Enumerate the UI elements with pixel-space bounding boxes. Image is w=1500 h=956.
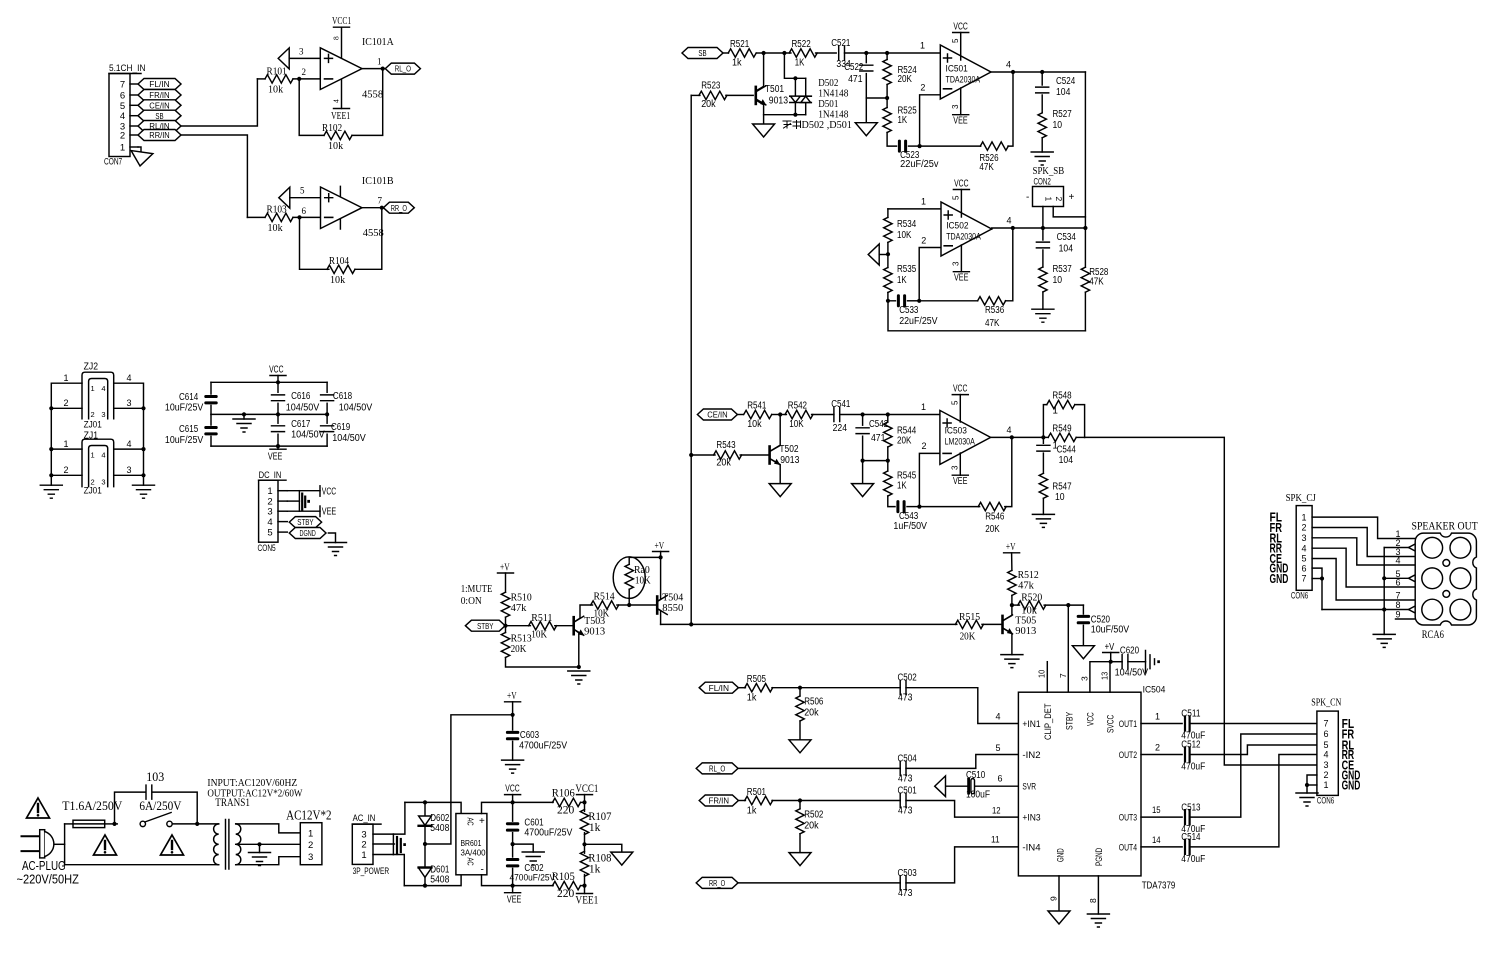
svg-text:10k: 10k bbox=[268, 223, 284, 234]
wire R534 to IC502 +input pin1 bbox=[888, 208, 941, 210]
resistor R103 bbox=[247, 216, 265, 218]
svg-text:3: 3 bbox=[101, 478, 105, 487]
svg-text:VCC: VCC bbox=[954, 179, 968, 190]
svg-text:ZJ01: ZJ01 bbox=[84, 485, 102, 496]
transistor T502 9013 bbox=[691, 454, 715, 456]
analog-ground triangle at R534/R535 bbox=[868, 244, 879, 265]
ground below C542 bbox=[852, 484, 874, 497]
svg-text:CE/IN: CE/IN bbox=[149, 100, 169, 110]
net flag RR_O bbox=[383, 202, 414, 213]
svg-text:7: 7 bbox=[1396, 591, 1401, 601]
svg-text:C619: C619 bbox=[331, 422, 351, 433]
svg-text:OUT4: OUT4 bbox=[1119, 842, 1137, 853]
IC101B power stubs bbox=[339, 186, 341, 229]
svg-text:3: 3 bbox=[127, 465, 132, 475]
svg-text:3: 3 bbox=[101, 410, 105, 419]
svg-text:OUT2: OUT2 bbox=[1119, 750, 1137, 761]
svg-text:C513: C513 bbox=[1181, 802, 1201, 813]
svg-text:8: 8 bbox=[332, 36, 341, 40]
svg-text:4: 4 bbox=[127, 373, 132, 383]
resistor R546 feedback bbox=[919, 506, 979, 508]
capacitor C541 bbox=[834, 408, 840, 422]
svg-text:4558: 4558 bbox=[362, 89, 384, 101]
svg-text:5: 5 bbox=[951, 400, 960, 405]
svg-text:VCC1: VCC1 bbox=[575, 781, 598, 795]
capacitor C523 electrolytic bbox=[898, 140, 907, 153]
ground below R502 bbox=[789, 853, 811, 866]
svg-text:SB: SB bbox=[698, 48, 706, 58]
fuse T1.6A/250V bbox=[65, 823, 73, 825]
capacitor C614 electrolytic bbox=[210, 382, 212, 394]
resistor R544 bbox=[887, 415, 889, 423]
svg-text:R541: R541 bbox=[747, 401, 767, 412]
svg-text:C501: C501 bbox=[898, 786, 918, 797]
svg-text:AC_IN: AC_IN bbox=[353, 813, 376, 824]
T503 collector to R514 bbox=[574, 605, 593, 622]
svg-text:GND: GND bbox=[1342, 779, 1361, 793]
svg-text:VEE: VEE bbox=[954, 273, 969, 284]
svg-text:2: 2 bbox=[361, 840, 366, 851]
svg-text:+V: +V bbox=[655, 541, 665, 552]
svg-text:R535: R535 bbox=[897, 264, 917, 275]
resistor R548 parallel loop bbox=[1043, 405, 1046, 438]
svg-text:47k: 47k bbox=[511, 602, 527, 614]
svg-text:TDA2030A: TDA2030A bbox=[946, 232, 981, 242]
svg-text:R104: R104 bbox=[329, 256, 350, 267]
svg-text:1k: 1k bbox=[747, 806, 758, 817]
transistor T505 9013 bbox=[1003, 615, 1013, 634]
resistor R513 bbox=[505, 626, 507, 633]
svg-text:5: 5 bbox=[951, 38, 960, 43]
svg-text:3: 3 bbox=[1301, 533, 1306, 543]
svg-text:22uF/25v: 22uF/25v bbox=[900, 159, 938, 170]
svg-text:C616: C616 bbox=[291, 391, 311, 402]
svg-text:20k: 20k bbox=[716, 458, 731, 469]
resistor R541 bbox=[737, 414, 743, 416]
svg-text:1: 1 bbox=[91, 451, 95, 460]
svg-text:STBY: STBY bbox=[1064, 711, 1075, 730]
SPK_CJ pin2 wire to RCA pin3 bbox=[1312, 528, 1415, 557]
svg-text:R546: R546 bbox=[985, 512, 1005, 523]
capacitor C512 output 2 bbox=[1141, 754, 1182, 756]
IC504 CLIP_DET stub pin10 bbox=[1046, 662, 1048, 693]
svg-text:5: 5 bbox=[1301, 554, 1306, 564]
svg-text:14: 14 bbox=[1152, 835, 1161, 845]
capacitor C601 electrolytic bbox=[512, 802, 514, 821]
net flag RR_O bbox=[696, 877, 738, 888]
svg-text:SPK_SB: SPK_SB bbox=[1033, 165, 1065, 177]
svg-text:C514: C514 bbox=[1181, 832, 1201, 843]
svg-text:2: 2 bbox=[64, 465, 69, 475]
svg-text:103: 103 bbox=[146, 770, 164, 784]
svg-text:SVCC: SVCC bbox=[1106, 715, 1117, 733]
svg-text:3: 3 bbox=[299, 47, 304, 57]
resistor R523 bbox=[691, 94, 700, 96]
svg-text:20K: 20K bbox=[511, 643, 527, 655]
svg-text:C533: C533 bbox=[899, 305, 919, 316]
svg-text:5: 5 bbox=[1323, 740, 1328, 750]
svg-text:VEE1: VEE1 bbox=[331, 111, 350, 122]
svg-text:R105: R105 bbox=[552, 869, 575, 883]
net flag FR/IN bbox=[138, 90, 181, 101]
svg-text:C511: C511 bbox=[1181, 709, 1201, 720]
svg-text:+IN1: +IN1 bbox=[1022, 719, 1040, 730]
svg-text:2: 2 bbox=[1301, 523, 1306, 533]
svg-text:3: 3 bbox=[267, 507, 272, 518]
svg-text:C614: C614 bbox=[179, 392, 199, 403]
wire diode midpoint to +V bbox=[425, 715, 513, 844]
IC504 SVCC pin13 wire bbox=[1109, 662, 1111, 693]
resistor R108 bbox=[580, 851, 588, 876]
svg-text:10uF/50V: 10uF/50V bbox=[1091, 625, 1130, 636]
svg-text:10uF/25V: 10uF/25V bbox=[165, 403, 204, 414]
svg-text:5: 5 bbox=[300, 186, 305, 196]
net flag STBY bbox=[465, 620, 505, 631]
svg-text:6: 6 bbox=[1323, 729, 1328, 739]
svg-text:10k: 10k bbox=[330, 275, 346, 286]
AC_IN pin1 wire to bottom rail bbox=[393, 855, 404, 886]
svg-text:0:ON: 0:ON bbox=[461, 595, 482, 607]
svg-text:20K: 20K bbox=[898, 74, 913, 85]
svg-text:4700uF/25V: 4700uF/25V bbox=[524, 828, 572, 839]
svg-text:VCC: VCC bbox=[505, 784, 519, 795]
svg-text:R548: R548 bbox=[1052, 391, 1072, 402]
svg-text:OUT3: OUT3 bbox=[1119, 813, 1137, 824]
AC_IN pin wires and mate symbol bbox=[373, 833, 393, 835]
svg-text:T502: T502 bbox=[779, 444, 799, 455]
svg-text:473: 473 bbox=[898, 693, 913, 704]
svg-text:5.1CH_IN: 5.1CH_IN bbox=[109, 63, 146, 74]
svg-text:TDA7379: TDA7379 bbox=[1142, 881, 1176, 892]
IC504 PGND pin8 to ground bbox=[1097, 876, 1099, 914]
svg-text:R505: R505 bbox=[747, 674, 767, 685]
svg-text:3P_POWER: 3P_POWER bbox=[353, 866, 390, 877]
svg-text:1: 1 bbox=[921, 197, 926, 207]
IC502 output pin4 bbox=[992, 228, 1086, 229]
svg-text:20k: 20k bbox=[804, 708, 819, 719]
ground below R547 bbox=[1032, 514, 1054, 527]
power VEE at IC503 pin3 bbox=[959, 453, 961, 475]
switch 6A/250V bbox=[140, 821, 145, 826]
T504 emitter to +V bbox=[657, 557, 660, 601]
resistor R545 bbox=[887, 461, 889, 471]
net flag RL_O bbox=[385, 63, 420, 74]
svg-text:GND: GND bbox=[1270, 572, 1289, 586]
svg-text:CON7: CON7 bbox=[104, 157, 122, 168]
svg-text:9013: 9013 bbox=[769, 96, 789, 107]
svg-text:1k: 1k bbox=[589, 862, 601, 876]
ground below R527 bbox=[1031, 152, 1053, 165]
svg-text:3A/400: 3A/400 bbox=[461, 848, 486, 858]
ground at CON7 pin 1 bbox=[138, 147, 141, 152]
svg-text:DGND: DGND bbox=[300, 528, 316, 538]
svg-text:4: 4 bbox=[1301, 543, 1306, 553]
VCC top rail bbox=[405, 802, 461, 813]
svg-text:VCC: VCC bbox=[1086, 712, 1097, 726]
svg-text:20k: 20k bbox=[804, 821, 819, 832]
IC504 GND pin9 to ground bbox=[1058, 876, 1060, 911]
analog-ground triangle at IC101A +input bbox=[278, 48, 289, 69]
svg-text:3: 3 bbox=[951, 104, 960, 109]
bridge rectifier BR601 bbox=[456, 814, 487, 875]
resistor R506 bbox=[799, 688, 801, 696]
ground below C520 bbox=[1072, 646, 1094, 659]
power VEE1 bbox=[584, 886, 586, 894]
svg-text:4700uF/25V: 4700uF/25V bbox=[510, 873, 556, 884]
analog-ground triangle at IC101B +input bbox=[279, 187, 290, 208]
IC101B output to flag RR_O bbox=[362, 207, 384, 209]
transformer core bbox=[226, 820, 229, 870]
CE output wire to SPK_CN pin3 bbox=[1085, 437, 1317, 765]
svg-text:10: 10 bbox=[1053, 275, 1063, 286]
resistor R102 feedback bbox=[299, 79, 324, 135]
op-amp IC501 TDA2030A bbox=[940, 45, 991, 99]
svg-text:6: 6 bbox=[1301, 563, 1306, 573]
cap bank top rail bbox=[211, 381, 327, 383]
svg-text:3: 3 bbox=[1323, 760, 1328, 770]
svg-text:47k: 47k bbox=[1018, 580, 1034, 592]
resistor R510 bbox=[505, 573, 507, 592]
svg-text:1K: 1K bbox=[795, 58, 805, 69]
svg-text:R520: R520 bbox=[1021, 592, 1043, 604]
svg-text:-IN4: -IN4 bbox=[1022, 842, 1040, 853]
IC501 output pin4 bbox=[991, 71, 1085, 73]
svg-text:3: 3 bbox=[951, 465, 960, 470]
net flag STBY at CON5 bbox=[289, 517, 321, 528]
svg-text:473: 473 bbox=[898, 888, 913, 899]
svg-text:10k: 10k bbox=[747, 419, 762, 430]
mute rail wire bbox=[661, 623, 957, 625]
svg-text:1K: 1K bbox=[898, 115, 908, 126]
svg-text:FR/IN: FR/IN bbox=[709, 796, 729, 806]
resistor R536 feedback bbox=[919, 300, 978, 302]
svg-text:10K: 10K bbox=[531, 629, 547, 641]
svg-text:IC101B: IC101B bbox=[362, 175, 394, 187]
SPK_CJ pin4 wire to RCA pin6 bbox=[1312, 548, 1415, 587]
svg-text:-IN2: -IN2 bbox=[1022, 750, 1040, 761]
op-amp IC101A bbox=[320, 48, 362, 90]
svg-text:3: 3 bbox=[127, 398, 132, 408]
svg-text:6: 6 bbox=[998, 774, 1003, 784]
svg-text:VEE: VEE bbox=[507, 895, 522, 906]
T503 emitter to ground bbox=[574, 629, 579, 667]
resistor R526 feedback bbox=[920, 145, 981, 147]
CON2 pin1 wire to IC502 output bbox=[1042, 207, 1044, 229]
svg-text:R522: R522 bbox=[792, 39, 812, 50]
svg-text:R549: R549 bbox=[1052, 423, 1072, 434]
svg-text:1N4148: 1N4148 bbox=[818, 110, 848, 121]
capacitor C616 bbox=[277, 382, 279, 392]
svg-text:1: 1 bbox=[1155, 712, 1160, 722]
RCA6 small circles bbox=[1443, 560, 1450, 567]
svg-text:12: 12 bbox=[992, 806, 1001, 816]
svg-text:RR_O: RR_O bbox=[709, 878, 726, 888]
power VCC tap bbox=[319, 486, 321, 496]
svg-text:1k: 1k bbox=[732, 58, 743, 69]
svg-text:+: + bbox=[1069, 192, 1075, 203]
RCA6 jack circles bbox=[1422, 537, 1443, 558]
svg-text:4: 4 bbox=[127, 439, 132, 449]
net flag RR/IN bbox=[138, 130, 181, 141]
svg-text:2: 2 bbox=[1323, 770, 1328, 780]
svg-text:13: 13 bbox=[1100, 672, 1110, 680]
svg-text:R527: R527 bbox=[1053, 109, 1073, 120]
svg-text:1: 1 bbox=[1044, 197, 1054, 202]
svg-text:VEE: VEE bbox=[953, 116, 968, 127]
svg-text:C618: C618 bbox=[333, 391, 353, 402]
net flag RL_O bbox=[696, 763, 738, 774]
BR601 minus output to VEE rail bbox=[482, 875, 554, 886]
resistor R501 bbox=[738, 800, 745, 802]
sideways earth ground at C620 bbox=[1146, 651, 1155, 673]
svg-text:D502: D502 bbox=[818, 78, 838, 89]
svg-text:RL_O: RL_O bbox=[709, 763, 726, 773]
svg-text:8: 8 bbox=[1396, 600, 1401, 610]
plug to rails wire bbox=[55, 843, 65, 845]
capacitor C542 bbox=[862, 415, 864, 426]
svg-text:104: 104 bbox=[1056, 87, 1071, 98]
T504 collector to mute rail bbox=[657, 609, 660, 625]
net flag FL/IN bbox=[138, 79, 181, 90]
transformer TRANS1 primary bbox=[214, 824, 219, 865]
warning triangle 2 bbox=[94, 835, 117, 855]
mid rail ground bbox=[243, 414, 245, 419]
svg-text:IC502: IC502 bbox=[946, 221, 968, 231]
resistor R502 bbox=[799, 801, 801, 809]
capacitor C510 at SVR bbox=[975, 785, 1019, 787]
svg-text:10K: 10K bbox=[789, 419, 804, 430]
svg-text:C544: C544 bbox=[1057, 445, 1077, 456]
DGND to ground bbox=[328, 533, 335, 543]
resistor R525 bbox=[883, 108, 891, 133]
svg-text:10K: 10K bbox=[897, 230, 912, 241]
capacitor C504 bbox=[738, 767, 900, 769]
svg-text:C620: C620 bbox=[1120, 646, 1140, 657]
R107/R108 midpoint to ground triangle bbox=[585, 844, 622, 852]
svg-text:PGND: PGND bbox=[1094, 848, 1105, 866]
transistor T501 9013 mute bbox=[756, 53, 764, 91]
wire Ra0 top to +V bbox=[629, 556, 660, 558]
svg-text:4: 4 bbox=[101, 451, 105, 460]
svg-text:4: 4 bbox=[101, 384, 105, 393]
svg-text:SPK_CN: SPK_CN bbox=[1311, 698, 1342, 709]
bus IC501 output down right side bbox=[1084, 72, 1086, 267]
long wire mute line down-left bbox=[690, 95, 692, 624]
capacitor C533 electrolytic bbox=[897, 294, 906, 307]
svg-text:C534: C534 bbox=[1057, 232, 1077, 243]
svg-text:SB: SB bbox=[155, 111, 163, 121]
resistor R522 bbox=[764, 52, 791, 54]
svg-text:CON6: CON6 bbox=[1291, 591, 1308, 601]
svg-text:4: 4 bbox=[1006, 60, 1011, 70]
resistor R527 bbox=[1041, 95, 1043, 113]
svg-text:104: 104 bbox=[1059, 244, 1074, 255]
ZJ1 pin wires bbox=[51, 448, 82, 450]
svg-text:1K: 1K bbox=[897, 481, 907, 492]
svg-text:VEE1: VEE1 bbox=[575, 893, 598, 907]
op-amp IC101B bbox=[321, 187, 363, 229]
svg-text:R537: R537 bbox=[1053, 264, 1073, 275]
AC_IN pin3 wire to top rail bbox=[393, 802, 405, 834]
svg-text:1: 1 bbox=[64, 439, 69, 449]
op-amp IC502 TDA2030A bbox=[941, 202, 992, 256]
wire pin5 to IC101B + bbox=[290, 197, 321, 199]
svg-text:2: 2 bbox=[1054, 197, 1064, 202]
svg-text:SPK_CJ: SPK_CJ bbox=[1286, 493, 1316, 504]
T505 collector to R512 bbox=[1003, 605, 1012, 621]
bottom rail of bridge amp bbox=[888, 301, 1085, 331]
svg-text:4: 4 bbox=[1007, 216, 1012, 226]
svg-text:C503: C503 bbox=[898, 868, 918, 879]
svg-text:R501: R501 bbox=[747, 787, 767, 798]
svg-text:9013: 9013 bbox=[584, 626, 606, 638]
power VEE1 at IC101A pin 4 bbox=[341, 79, 343, 108]
capacitor C522 bbox=[865, 53, 867, 63]
svg-text:1: 1 bbox=[1052, 406, 1058, 417]
warning triangle 1 bbox=[27, 798, 50, 818]
svg-text:VEE: VEE bbox=[268, 452, 283, 463]
resistor R514 bbox=[591, 601, 619, 609]
T502 emitter to ground bbox=[770, 459, 781, 484]
svg-text:1: 1 bbox=[267, 486, 272, 497]
svg-text:2: 2 bbox=[91, 410, 95, 419]
svg-text:20k: 20k bbox=[701, 99, 716, 110]
svg-text:R103: R103 bbox=[267, 205, 287, 216]
svg-text:R101: R101 bbox=[267, 67, 287, 78]
svg-text:1k: 1k bbox=[589, 820, 601, 834]
svg-text:RR_O: RR_O bbox=[391, 203, 408, 213]
capacitor 103 bypass over switch bbox=[115, 792, 146, 824]
svg-text:7: 7 bbox=[378, 196, 383, 206]
svg-text:1: 1 bbox=[1301, 512, 1306, 522]
svg-text:224: 224 bbox=[833, 423, 848, 434]
svg-text:6: 6 bbox=[302, 206, 307, 216]
net flag RL/IN bbox=[138, 121, 181, 132]
svg-text:9013: 9013 bbox=[780, 455, 800, 466]
cap bank mid rail bbox=[211, 413, 327, 415]
capacitor C619 bbox=[326, 414, 328, 423]
svg-text:7: 7 bbox=[1058, 673, 1068, 678]
svg-text:R534: R534 bbox=[897, 219, 917, 230]
svg-text:C522: C522 bbox=[844, 62, 864, 73]
svg-text:FL/IN: FL/IN bbox=[149, 79, 169, 89]
svg-text:20K: 20K bbox=[985, 524, 1000, 535]
secondary top tap to pin1 bbox=[236, 824, 301, 833]
AC plug symbol bbox=[22, 836, 40, 851]
svg-text:R506: R506 bbox=[804, 697, 824, 708]
svg-text:6: 6 bbox=[1396, 578, 1401, 588]
svg-text:CON5: CON5 bbox=[258, 543, 276, 554]
resistor R535 bbox=[887, 255, 889, 268]
capacitor C502 bbox=[800, 687, 900, 689]
RCA6 body bbox=[1415, 533, 1476, 625]
svg-text:4: 4 bbox=[267, 517, 272, 528]
svg-text:3: 3 bbox=[308, 852, 313, 863]
resistor R505 bbox=[738, 687, 745, 689]
svg-text:+V: +V bbox=[1006, 542, 1016, 553]
svg-text:8: 8 bbox=[1088, 898, 1098, 903]
svg-text:20K: 20K bbox=[897, 436, 912, 447]
resistor R521 bbox=[723, 52, 729, 54]
resistor R549 bbox=[1048, 433, 1076, 441]
svg-text:7: 7 bbox=[1301, 574, 1306, 584]
wire to IC504 STBY pin7 bbox=[1067, 605, 1069, 692]
svg-text:3: 3 bbox=[952, 261, 961, 266]
svg-text:5408: 5408 bbox=[430, 875, 450, 886]
svg-text:104: 104 bbox=[1059, 455, 1074, 466]
power VEE tap bbox=[319, 506, 321, 517]
net flag SB bbox=[138, 110, 181, 121]
